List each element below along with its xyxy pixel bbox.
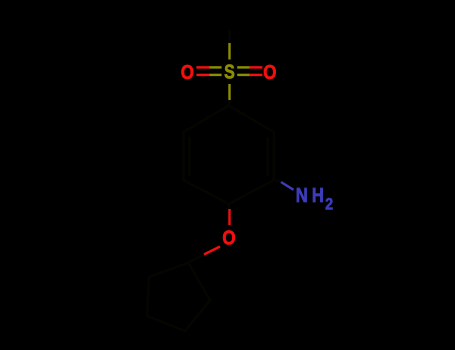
bond CH3-S (sulfur half) <box>228 43 230 60</box>
benzene ring (carbon bonds, near-invisible) <box>184 106 274 205</box>
bond CH3 carbon half (near-invisible) <box>228 31 230 44</box>
double bond S=O left <box>196 67 221 75</box>
bond S-ring (sulfur half) <box>228 84 230 100</box>
bond O-C cyclopentyl oxygen half <box>204 247 220 255</box>
bond S-ring carbon half (near-invisible) <box>227 100 230 106</box>
bond C-N nitrogen half <box>281 182 294 190</box>
bond C-O bottom carbon half (near-invisible) <box>227 204 230 209</box>
bond C-O bottom oxygen half <box>228 209 230 225</box>
svg-text:O: O <box>222 226 235 249</box>
svg-text:2: 2 <box>325 196 333 214</box>
svg-text:S: S <box>224 61 235 83</box>
svg-text:N: N <box>296 184 308 207</box>
bond C-N carbon half (near-invisible) <box>274 180 281 182</box>
cyclopentane ring (carbon bonds, near-invisible) <box>147 263 210 331</box>
bond O-C cyclopentyl carbon half (near-invisible) <box>188 255 204 263</box>
double bond S=O right <box>237 67 262 75</box>
svg-text:O: O <box>263 61 276 84</box>
svg-text:H: H <box>312 184 324 207</box>
svg-text:O: O <box>181 61 194 84</box>
